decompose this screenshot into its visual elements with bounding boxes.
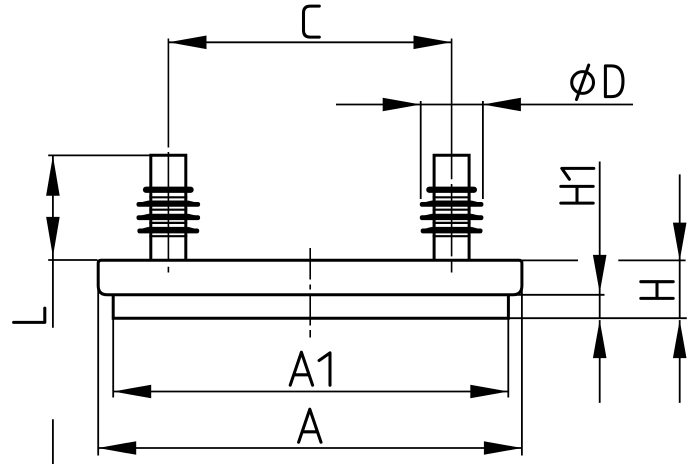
dimension A1 extension line right <box>507 319 509 398</box>
left stud rib bar 4 <box>137 229 199 234</box>
label H <box>641 282 673 299</box>
left stud rib bar 1 <box>143 187 194 193</box>
right stud rib bar 3 <box>420 215 484 220</box>
dimension A extension line right <box>521 287 523 456</box>
label C <box>304 6 320 37</box>
right stud neck line 4 <box>433 235 471 237</box>
H reference line top (plate top extended) <box>522 259 686 261</box>
dimension oD line <box>336 104 633 106</box>
dimension A extension line left <box>97 287 99 456</box>
dimension A1 right arrow <box>470 385 508 399</box>
label oD letter D <box>605 66 623 97</box>
dimension H1 line <box>599 162 601 403</box>
label A <box>299 409 321 442</box>
oD extension line right <box>482 101 484 199</box>
right stud neck line 2 <box>433 209 471 211</box>
left stud centerline <box>167 39 169 273</box>
right stud cone 4 <box>421 228 482 231</box>
right stud rib bar 4 <box>421 229 483 234</box>
left stud neck line 4 <box>149 235 187 237</box>
plate lower layer <box>113 295 508 318</box>
label A1 <box>290 352 330 385</box>
dimension A1 left arrow <box>113 385 151 399</box>
right stud body <box>434 155 469 259</box>
dimension H line <box>679 174 681 403</box>
left stud rib bar 2 <box>137 202 201 207</box>
dimension C line <box>169 41 452 43</box>
H1 reference line (cap bottom extended) <box>514 294 605 296</box>
dimension H1 down arrow <box>593 255 607 293</box>
dimension oD left arrow <box>383 98 421 112</box>
right stud cone 2 <box>420 201 483 204</box>
H reference line bottom (layer bottom extended) <box>508 317 686 319</box>
dimension A1 line <box>113 391 508 393</box>
label L <box>14 308 45 322</box>
right stud rib bar 2 <box>420 202 484 207</box>
dimension L line <box>52 156 54 464</box>
dimension H up arrow <box>673 320 687 358</box>
label H1 <box>561 168 594 203</box>
left stud neck line 2 <box>149 209 187 211</box>
dimension C left arrow <box>169 36 207 50</box>
dimension A left arrow <box>98 441 136 455</box>
left stud cone 3 <box>137 215 200 218</box>
dimension A right arrow <box>484 441 522 455</box>
right stud neck line 3 <box>433 222 471 224</box>
right stud rib bar 1 <box>426 187 477 193</box>
dimension L up arrow <box>46 156 60 196</box>
left stud body <box>151 155 186 259</box>
left stud cone 4 <box>138 228 199 231</box>
dimension H down arrow <box>673 223 687 261</box>
left stud neck line 1 <box>149 196 187 198</box>
left stud cone 2 <box>137 201 200 204</box>
dimension A line <box>98 447 522 449</box>
dimension L down arrow <box>46 217 60 257</box>
label oD diameter symbol <box>572 65 594 99</box>
oD extension line left <box>420 101 422 199</box>
dimension L reference line bottom <box>48 259 97 261</box>
dimension H1 up arrow <box>593 320 607 358</box>
plate cap outline <box>98 260 522 295</box>
dimension C right arrow <box>414 36 452 50</box>
dimension oD right arrow <box>483 98 521 112</box>
dimension L reference line top <box>48 154 150 156</box>
middle centerline <box>309 248 311 338</box>
right stud centerline <box>451 39 453 273</box>
left stud neck line 3 <box>149 222 187 224</box>
left stud rib bar 3 <box>137 215 201 220</box>
right stud cone 3 <box>420 215 483 218</box>
dimension A1 extension line left <box>112 319 114 398</box>
right stud neck line 1 <box>433 196 471 198</box>
